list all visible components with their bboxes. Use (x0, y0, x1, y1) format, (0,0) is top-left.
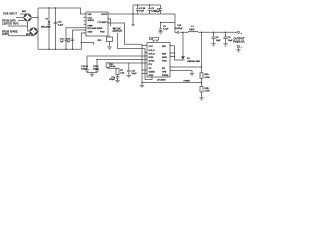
resistor R6 box (106, 63, 109, 68)
svg-text:100pF: 100pF (109, 79, 116, 81)
output terminal - (237, 45, 239, 47)
capacitor C8 (212, 32, 216, 44)
ground cluster (90, 74, 95, 76)
svg-text:GND: GND (149, 75, 154, 77)
svg-text:+: + (240, 31, 242, 35)
bridge rectifier BR2 (29, 27, 37, 35)
VC wire to ground (170, 71, 192, 74)
U1 left pin stubs (84, 17, 87, 19)
wire (28, 26, 30, 31)
wire cluster caps join (87, 72, 97, 74)
ground C16 (115, 80, 120, 82)
capacitor C11 plates (54, 22, 57, 23)
diode D1 body (181, 56, 185, 60)
capacitor C5 plates (85, 70, 88, 71)
wire (8, 35, 34, 37)
wire (97, 60, 147, 73)
svg-text:VIN: VIN (88, 14, 92, 16)
sense element above U2 (149, 38, 158, 43)
svg-text:100µF: 100µF (93, 69, 99, 71)
ground small at rail end (131, 24, 134, 26)
FB wire (170, 66, 202, 68)
svg-text:0.1µF: 0.1µF (131, 73, 137, 75)
inductor L1 (188, 31, 198, 32)
svg-text:1.07k: 1.07k (205, 91, 211, 93)
wire (16, 17, 23, 19)
ground C8 (211, 44, 216, 46)
wire (18, 20, 24, 22)
svg-text:10µH: 10µH (189, 29, 195, 31)
bridge rectifier BR1 (23, 13, 31, 21)
wire (32, 17, 38, 19)
svg-text:−: − (241, 45, 243, 49)
capacitor C15 plates (71, 39, 74, 40)
ground at VC (190, 74, 195, 76)
wire terminal minus to ground (237, 48, 239, 50)
svg-text:3.3µF: 3.3µF (154, 11, 160, 13)
svg-text:0.1µF: 0.1µF (58, 24, 64, 26)
svg-text:FB: FB (162, 68, 165, 70)
capacitor C3 (149, 5, 151, 14)
svg-text:10µF: 10µF (139, 11, 145, 13)
U2 right pin wires (170, 32, 202, 73)
wire (81, 43, 93, 45)
svg-text:UVLO: UVLO (149, 50, 155, 52)
svg-text:0.047µF: 0.047µF (175, 27, 183, 30)
ground C9 (223, 44, 228, 46)
ground C17 (127, 75, 132, 77)
wire (66, 28, 86, 50)
svg-text:PAIRS: PAIRS (2, 33, 9, 36)
wire U1 PWRGD (108, 19, 111, 26)
svg-text:SW: SW (162, 46, 166, 48)
svg-text:P1: P1 (46, 19, 49, 21)
svg-text:ITH: ITH (149, 64, 153, 66)
svg-text:5V@0.5A: 5V@0.5A (233, 40, 245, 44)
wire (38, 8, 86, 14)
svg-text:1µF: 1µF (60, 41, 64, 43)
wire (37, 8, 39, 49)
ground C6 (158, 32, 163, 34)
diode D1 (182, 32, 184, 56)
capacitor C2 (137, 5, 139, 14)
svg-text:4.2k: 4.2k (120, 72, 125, 75)
svg-text:VFB: VFB (162, 71, 167, 73)
wire (81, 33, 86, 49)
svg-text:SW2: SW2 (162, 57, 168, 59)
output wire with L1 (180, 31, 238, 32)
ground divider (199, 98, 204, 100)
svg-text:BR1: BR1 (22, 11, 27, 13)
svg-text:D1: D1 (187, 58, 191, 60)
wire (107, 62, 109, 64)
svg-text:100µF: 100µF (81, 69, 87, 71)
ground RCLASS (107, 47, 112, 49)
capacitor C7 plates (95, 70, 98, 71)
TVS P1 (48, 21, 51, 24)
R7 and C16 chain (116, 68, 119, 80)
middle compensation cluster wires (87, 56, 147, 74)
ground at minus terminal (236, 50, 241, 52)
svg-text:PGND: PGND (162, 75, 169, 77)
top cap rails (133, 5, 162, 24)
svg-text:RUN: RUN (149, 57, 154, 59)
svg-text:40.2k: 40.2k (110, 65, 116, 68)
svg-text:PGND: PGND (184, 81, 191, 83)
svg-text:LTC4257-1: LTC4257-1 (98, 21, 110, 24)
svg-text:VCC: VCC (149, 46, 154, 48)
wire (87, 56, 147, 73)
svg-text:OVLO: OVLO (149, 53, 155, 55)
svg-text:OUTPUT: OUTPUT (113, 31, 123, 33)
svg-text:1µF: 1µF (67, 41, 71, 43)
capacitor C4 (160, 5, 162, 14)
C6 branch (159, 14, 177, 32)
svg-text:VOUT: VOUT (101, 14, 108, 16)
wire U1 pin3 to U2 (108, 23, 142, 44)
svg-text:CENTER TAPS: CENTER TAPS (2, 22, 19, 25)
svg-text:SMAJ58A: SMAJ58A (41, 26, 51, 29)
capacitor C9 (224, 32, 228, 44)
IC U1 box (86, 12, 108, 36)
wire (48, 8, 50, 49)
IC U2 box (147, 43, 170, 78)
svg-text:BST: BST (162, 53, 167, 55)
svg-text:R5A: R5A (205, 73, 210, 76)
svg-text:4.7µF: 4.7µF (163, 28, 169, 31)
wire 48OK continues (118, 33, 146, 49)
bottom long wire to divider (142, 82, 202, 84)
svg-text:PGD: PGD (162, 61, 167, 63)
svg-text:3.01k: 3.01k (205, 77, 211, 79)
svg-text:10µF: 10µF (216, 40, 222, 42)
resistor R5A box (200, 73, 203, 78)
svg-text:SHDN: SHDN (88, 20, 95, 22)
wire (8, 22, 28, 26)
svg-text:SGND: SGND (149, 71, 156, 73)
wire RCLASS to ground (109, 42, 111, 48)
IC U2 internal text (149, 46, 191, 82)
svg-text:GND: GND (88, 31, 93, 33)
wire (108, 62, 147, 64)
capacitor C14 plates (64, 39, 67, 40)
C17 branch (127, 63, 130, 75)
resistor R5B box (200, 87, 203, 92)
svg-text:LTC3803: LTC3803 (157, 79, 166, 81)
wire (38, 48, 81, 50)
wire (73, 30, 87, 49)
resistor RCLASS box (109, 36, 111, 37)
svg-text:PGD: PGD (100, 31, 105, 33)
wire U1 VOUT to cap rail (108, 13, 175, 15)
capacitor C10 series (177, 31, 179, 34)
svg-text:C11: C11 (58, 22, 63, 24)
U2 left lower pin wires (142, 44, 202, 85)
wire (20, 13, 26, 15)
wire (55, 8, 57, 49)
svg-text:RCLASS MGN: RCLASS MGN (88, 27, 103, 30)
junction dots (37, 4, 226, 83)
svg-text:RCL: RCL (98, 40, 103, 42)
svg-text:POE INPUT: POE INPUT (3, 11, 17, 15)
svg-text:CMDSH-3SE: CMDSH-3SE (187, 61, 200, 63)
svg-text:SYNC: SYNC (149, 61, 155, 63)
output terminal + (237, 31, 239, 33)
feedback divider rail (200, 32, 203, 98)
ground U2 bottom left (140, 85, 145, 87)
svg-text:VC: VC (149, 68, 152, 70)
svg-text:48V OK: 48V OK (113, 28, 122, 31)
IC U1 internal text (88, 14, 110, 34)
